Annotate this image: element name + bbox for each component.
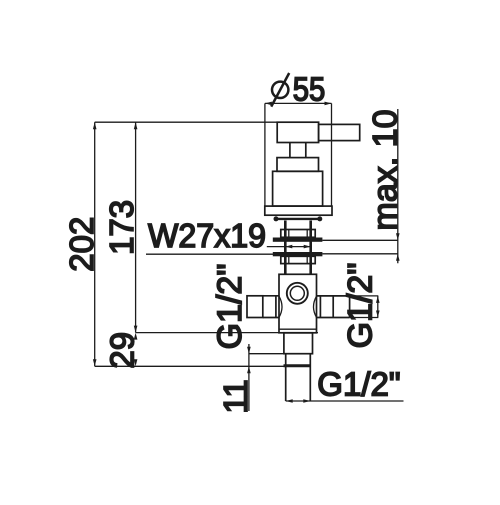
- dimension phi55 extension left: [264, 103, 266, 206]
- wire mid reference line y332.6: [136, 332, 318, 334]
- dimension G12 bottom arrow left: [286, 399, 293, 403]
- svg-text:173: 173: [103, 200, 140, 255]
- left port end cap: [247, 296, 263, 318]
- washer2 bold: [273, 252, 323, 256]
- dimension G12 bottom arrow right: [303, 399, 310, 403]
- svg-text:55: 55: [293, 71, 326, 108]
- dimension W27 arrow right: [304, 245, 311, 249]
- trim ring right dot: [317, 216, 322, 221]
- wire bottom reference line y366.3: [95, 365, 286, 367]
- phi symbol circle: [272, 82, 288, 98]
- dimension max10 arrow upper: [396, 233, 400, 240]
- left port tube bottom: [263, 317, 279, 319]
- handle hub: [277, 122, 318, 142]
- nut1 facet right: [306, 230, 308, 238]
- dimension max10 line: [397, 109, 399, 263]
- dimension G12 bottom line: [286, 400, 404, 402]
- dimension 29 arrow bottom: [134, 359, 138, 366]
- svg-text:29: 29: [103, 332, 140, 369]
- trim ring bar: [276, 218, 320, 220]
- dimension G12 right arrow top: [376, 296, 380, 303]
- handle stem right line: [305, 143, 307, 158]
- upper body: [273, 171, 323, 206]
- valve body: [279, 274, 317, 333]
- svg-text:G1/2": G1/2": [317, 365, 400, 402]
- dimension 202 line: [94, 122, 96, 366]
- dimension phi55 line: [265, 102, 332, 104]
- left port tube top: [263, 295, 279, 297]
- dimension 202 arrow top: [93, 122, 97, 129]
- outlet pipe upper: [284, 333, 313, 354]
- fillet arc right: [314, 296, 317, 317]
- washer1 bold: [273, 238, 323, 242]
- nut2 facet left: [288, 256, 290, 263]
- svg-text:G1/2": G1/2": [211, 264, 249, 350]
- outlet pipe lower right line: [309, 354, 311, 401]
- wire top reference line y122: [95, 121, 278, 123]
- nut2 facet right: [306, 256, 308, 263]
- dimension 11 arrow lower: [247, 366, 251, 373]
- cartridge cap: [277, 158, 319, 172]
- svg-text:11: 11: [217, 379, 254, 413]
- outlet pipe lower left line: [285, 354, 287, 401]
- dimension 202 arrow bottom: [93, 359, 97, 366]
- dimension G12 right extension bottom: [350, 317, 379, 319]
- valve body seam: [279, 328, 317, 330]
- wire W27x19 underline: [146, 253, 285, 255]
- wire max10 leader upper: [322, 239, 397, 241]
- flange escutcheon: [265, 206, 332, 215]
- phi symbol slash: [271, 73, 289, 107]
- dimension W27 arrow left: [285, 245, 292, 249]
- screw boss inner circle: [290, 286, 304, 300]
- dimension 29 arrow top: [134, 333, 138, 340]
- dimension 11 line: [248, 344, 250, 411]
- threaded stem left bold line: [284, 221, 287, 275]
- right port tube bottom: [317, 317, 350, 319]
- fillet arc left: [279, 296, 282, 317]
- dimension phi55 arrow left: [265, 102, 272, 106]
- dimension G12 right arrow bottom: [376, 311, 380, 318]
- left port shoulder: [275, 296, 277, 318]
- dimension 173 line: [135, 122, 137, 332]
- dimension phi55 extension right: [331, 103, 333, 206]
- dimension G12 right extension top: [350, 295, 379, 297]
- handle stem left line: [289, 143, 291, 158]
- svg-text:max. 10: max. 10: [367, 110, 405, 231]
- svg-text:W27x19: W27x19: [148, 217, 266, 254]
- nut2: [281, 256, 315, 263]
- nut1: [281, 230, 315, 238]
- svg-text:202: 202: [63, 217, 100, 272]
- screw boss outer circle: [287, 283, 308, 304]
- right port end cap: [349, 296, 351, 318]
- outlet pipe thread band: [284, 364, 312, 367]
- right port tube top: [317, 295, 350, 297]
- dimension max10 arrow lower: [396, 254, 400, 261]
- dimension W27 line: [267, 246, 311, 248]
- dimension 11 arrow upper: [247, 347, 251, 354]
- right port facet: [332, 296, 334, 318]
- dimension 173 arrow top: [134, 122, 138, 129]
- wire max10 leader lower: [322, 253, 397, 255]
- dimension G12 right line: [377, 296, 379, 318]
- handle lever: [319, 124, 360, 140]
- trim ring left dot: [274, 216, 279, 221]
- dimension 173 arrow bottom: [134, 326, 138, 333]
- dimension phi55 arrow right: [325, 102, 332, 106]
- svg-text:G1/2": G1/2": [342, 263, 380, 349]
- nut1 facet left: [288, 230, 290, 238]
- threaded stem right bold line: [309, 221, 312, 275]
- right port shoulder: [319, 296, 321, 318]
- wire 11 extension line: [249, 353, 284, 355]
